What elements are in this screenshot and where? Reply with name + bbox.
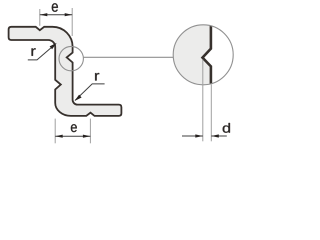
top dimension e : left arrowhead — [40, 13, 48, 16]
bottom r leader arrowhead — [75, 95, 82, 101]
magnified detail : notched edge line — [203, 26, 211, 84]
top dimension e : dimension line — [40, 14, 72, 16]
bottom dimension e : right arrowhead — [83, 135, 91, 138]
bottom dimension e : label — [71, 124, 77, 132]
leader line to detail circle — [83, 56, 173, 58]
top bend radius label r — [32, 48, 36, 56]
bottom bend radius label r — [95, 73, 99, 81]
sheet-metal Z-profile body — [9, 27, 122, 116]
detail view indicator circle (small) — [59, 46, 83, 70]
top dimension e : extension line left (at notch) — [39, 9, 41, 26]
bottom dimension e : left arrowhead — [55, 135, 63, 138]
bottom dimension e : extension line left — [54, 119, 56, 144]
dimension d : left arrowhead — [195, 134, 203, 137]
magnified detail circle : gray material region — [173, 25, 211, 85]
dimension d : extension line right (edge) — [210, 85, 212, 142]
magnified detail circle outline — [173, 25, 233, 85]
top r leader arrowhead — [50, 43, 57, 49]
top dimension e : extension line right — [71, 8, 73, 36]
dimension d : left dimension line — [182, 135, 203, 137]
top dimension e : right arrowhead — [65, 13, 73, 16]
dimension d : right arrowhead — [211, 134, 219, 137]
top dimension e : label — [52, 3, 58, 12]
dimension d : right dimension line — [211, 135, 227, 137]
bottom r leader line — [75, 84, 105, 101]
bottom dimension e : extension line right (at notch) — [89, 119, 91, 144]
dimension d : extension line left (notch apex) — [202, 60, 204, 142]
dimension d : label — [223, 123, 230, 133]
bottom dimension e : dimension line — [55, 135, 90, 137]
top r leader line — [28, 44, 56, 60]
